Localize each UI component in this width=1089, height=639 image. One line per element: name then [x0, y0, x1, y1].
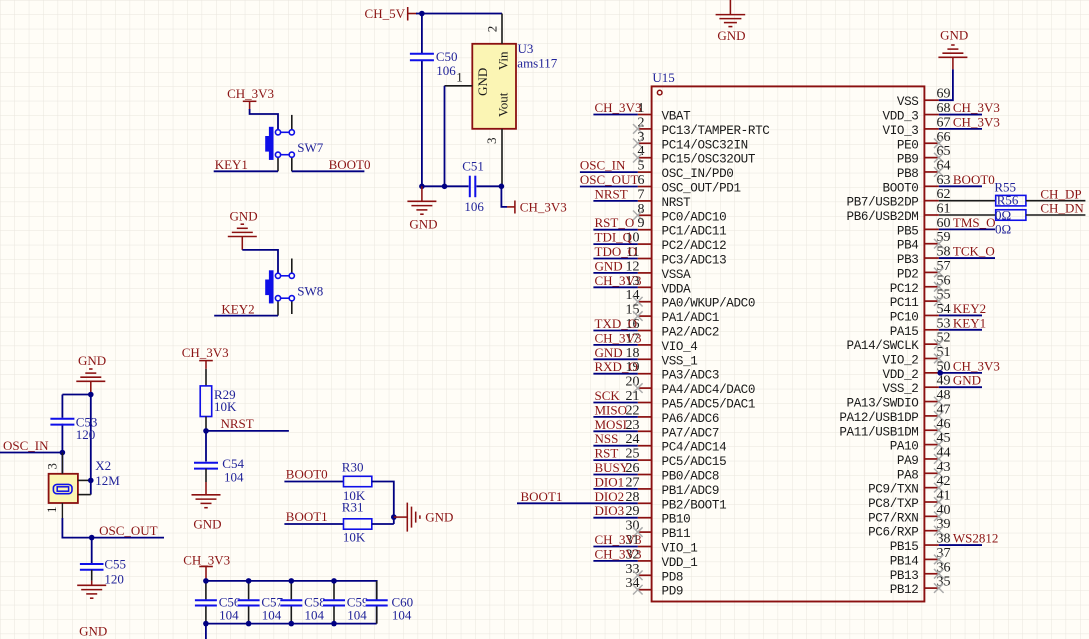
power port CH_3V3 (U3 output) — [507, 199, 567, 214]
U3 pin 2 (Vin) — [484, 14, 502, 44]
U15 pin 15 (PA1/ADC1) — [626, 303, 720, 326]
wire net KEY1 to U15 pin 53 — [939, 329, 982, 331]
wire net SCK to U15 pin 21 — [593, 402, 637, 404]
svg-text:ams117: ams117 — [517, 56, 557, 71]
no-connect marker pin 46 — [934, 425, 944, 435]
svg-text:BOOT0: BOOT0 — [329, 157, 371, 172]
wire net TMS_O to U15 pin 60 — [939, 228, 995, 230]
svg-text:PB4: PB4 — [897, 239, 919, 253]
wire net NSS to U15 pin 24 — [593, 445, 637, 447]
svg-text:NRST: NRST — [662, 196, 692, 210]
U15 pin 26 (PB0/ADC8) — [626, 461, 720, 484]
wire cap bank top rail — [206, 581, 377, 624]
crystal X2 body — [49, 474, 78, 503]
svg-text:PA3/ADC3: PA3/ADC3 — [662, 369, 720, 383]
U15 pin 54 (PC10) — [890, 302, 951, 325]
svg-text:PA9: PA9 — [897, 454, 919, 468]
svg-text:106: 106 — [436, 63, 456, 78]
U15 pin 32 (VDD_1) — [626, 547, 698, 570]
U15 pin 56 (PC12) — [890, 273, 951, 296]
svg-text:PB1/ADC9: PB1/ADC9 — [662, 484, 720, 498]
wire net CH_3V3 to U15 pin 31 — [593, 546, 637, 548]
no-connect marker pin 56 — [934, 282, 944, 292]
U3 pin 1 (GND) — [445, 69, 473, 86]
wire R56 to CH_DN — [1026, 214, 1086, 216]
switch SW8 — [265, 259, 294, 316]
wire net CH_3V3 to U15 pin 13 — [593, 286, 637, 288]
junction bank top 0 — [203, 578, 209, 584]
no-connect marker pin 64 — [934, 167, 944, 177]
svg-text:X2: X2 — [95, 458, 111, 473]
U15 pin 48 (PA13/SWDIO) — [847, 388, 951, 411]
svg-text:PC13/TAMPER-RTC: PC13/TAMPER-RTC — [662, 124, 771, 138]
wire CH_5V down through C50 — [421, 14, 423, 187]
svg-text:GND: GND — [79, 623, 107, 638]
U15 pin 50 (VDD_2) — [883, 359, 951, 382]
junction U3 gnd rail mid — [442, 184, 448, 190]
svg-text:104: 104 — [392, 608, 412, 623]
wire U3 pin1 to gnd rail — [444, 86, 446, 187]
C55 lower pin — [91, 570, 93, 581]
svg-text:PA10: PA10 — [890, 440, 919, 454]
wire U15 pin 61 to R56 — [939, 214, 996, 216]
svg-text:PC10: PC10 — [890, 310, 919, 324]
power port CH_3V3 (cap bank) — [183, 553, 230, 581]
no-connect marker pin 43 — [934, 469, 944, 479]
svg-text:RXD_O: RXD_O — [595, 359, 638, 374]
svg-text:PA13/SWDIO: PA13/SWDIO — [847, 397, 919, 411]
svg-text:PC1/ADC11: PC1/ADC11 — [662, 225, 727, 239]
svg-text:PA5/ADC5/DAC1: PA5/ADC5/DAC1 — [662, 398, 756, 412]
junction crystal case — [88, 478, 94, 484]
wire net WS2812 to U15 pin 38 — [939, 544, 982, 546]
U15 pin 33 (PD8) — [626, 562, 684, 585]
svg-text:GND: GND — [717, 28, 745, 43]
svg-text:PB2/BOOT1: PB2/BOOT1 — [662, 498, 727, 512]
capacitor C57 — [237, 581, 259, 624]
junction OSC_OUT — [89, 535, 95, 541]
wire OSC_IN — [0, 452, 62, 454]
no-connect marker pin 47 — [934, 411, 944, 421]
X2 case pins — [78, 480, 91, 494]
U15 pin 27 (PB1/ADC9) — [626, 475, 720, 498]
resistor R29 body — [200, 386, 212, 417]
svg-text:WS2812: WS2812 — [953, 531, 999, 546]
svg-text:C50: C50 — [436, 49, 458, 64]
svg-text:CH_3V3: CH_3V3 — [595, 546, 642, 561]
svg-text:CH_3V3: CH_3V3 — [183, 553, 230, 568]
svg-text:PA1/ADC1: PA1/ADC1 — [662, 311, 720, 325]
junction bank bottom 1 — [246, 621, 252, 627]
svg-text:OSC_OUT: OSC_OUT — [99, 523, 158, 538]
wire net MISO to U15 pin 22 — [593, 416, 637, 418]
svg-text:GND: GND — [230, 208, 258, 223]
svg-text:C55: C55 — [104, 557, 126, 572]
svg-text:VDD_3: VDD_3 — [883, 110, 919, 124]
svg-text:0Ω: 0Ω — [995, 222, 1011, 237]
wire net RST to U15 pin 25 — [593, 459, 637, 461]
junction bank bottom 0 — [203, 621, 209, 627]
no-connect marker pin 40 — [934, 512, 944, 522]
U15 pin 53 (PA15) — [890, 316, 951, 339]
wire net CH_3V3 to U15 pin 17 — [593, 344, 637, 346]
U15 pin 22 (PA6/ADC6) — [626, 403, 720, 426]
svg-text:CH_3V3: CH_3V3 — [953, 114, 1000, 129]
wire net RXD_O to U15 pin 19 — [593, 373, 637, 375]
ground C55 — [77, 585, 107, 638]
U15 pin 46 (PA11/USB1DM) — [839, 417, 950, 440]
no-connect marker pin 4 — [633, 153, 643, 163]
no-connect marker pin 37 — [934, 555, 944, 565]
svg-text:VIO_1: VIO_1 — [662, 542, 698, 556]
svg-text:PC4/ADC14: PC4/ADC14 — [662, 441, 727, 455]
svg-text:CH_3V3: CH_3V3 — [595, 100, 642, 115]
svg-text:DIO3: DIO3 — [595, 503, 625, 518]
svg-text:104: 104 — [219, 608, 239, 623]
wire net CH_3V3 to U15 pin 67 — [939, 128, 982, 130]
U15 pin 31 (VIO_1) — [626, 533, 698, 556]
U15 pin 35 (PB12) — [890, 575, 951, 598]
svg-text:VSS: VSS — [897, 95, 919, 109]
svg-text:104: 104 — [347, 608, 367, 623]
capacitor C53 — [50, 419, 74, 425]
ground (R30/R31, rotated) — [394, 503, 454, 532]
no-connect marker pin 2 — [633, 124, 643, 134]
wire CH_5V to U3 pin 2 — [416, 13, 502, 15]
svg-text:PB12: PB12 — [890, 583, 919, 597]
wire BOOT0 (SW7) — [292, 170, 365, 172]
U15 pin 36 (PB13) — [890, 560, 951, 583]
svg-text:CH_5V: CH_5V — [365, 6, 406, 21]
U15 pin 43 (PA8) — [897, 460, 951, 483]
no-connect marker pin 57 — [934, 268, 944, 278]
U15 pin 20 (PA4/ADC4/DAC0) — [626, 375, 756, 398]
svg-text:TMS_O: TMS_O — [953, 215, 996, 230]
no-connect marker pin 55 — [934, 296, 944, 306]
regulator U3 body — [472, 44, 516, 129]
svg-text:BOOT0: BOOT0 — [953, 172, 995, 187]
svg-text:VBAT: VBAT — [662, 110, 692, 124]
wire CH_3V3 to SW7 — [250, 109, 278, 130]
svg-text:CH_3V3: CH_3V3 — [953, 358, 1000, 373]
svg-text:7: 7 — [638, 187, 645, 202]
svg-text:9: 9 — [638, 216, 645, 231]
svg-text:GND: GND — [595, 345, 623, 360]
wire net NRST to U15 pin 7 — [593, 200, 637, 202]
svg-text:CH_DP: CH_DP — [1040, 186, 1081, 201]
U15 pin 37 (PB14) — [890, 546, 951, 569]
U15 pin 9 (PC1/ADC11) — [638, 216, 727, 239]
U15 pin 63 (BOOT0) — [883, 173, 951, 196]
resistor R56 body — [996, 210, 1026, 221]
no-connect marker pin 8 — [633, 211, 643, 221]
svg-text:DIO1: DIO1 — [595, 474, 625, 489]
wire U15 pin 62 to R55 — [939, 200, 996, 202]
svg-text:BUSY: BUSY — [595, 460, 630, 475]
junction bank bottom 3 — [331, 621, 337, 627]
U15 pin 6 (OSC_OUT/PD1) — [638, 173, 741, 196]
capacitor C59 — [323, 581, 345, 624]
resistor R30 body — [344, 476, 372, 486]
switch SW7 — [265, 115, 294, 171]
svg-text:VIO_2: VIO_2 — [883, 354, 919, 368]
svg-text:PA4/ADC4/DAC0: PA4/ADC4/DAC0 — [662, 383, 756, 397]
U15 pin 68 (VDD_3) — [883, 101, 951, 124]
svg-text:PC3/ADC13: PC3/ADC13 — [662, 254, 727, 268]
junction bank top 1 — [246, 578, 252, 584]
svg-text:PC15/OSC32OUT: PC15/OSC32OUT — [662, 153, 756, 167]
svg-text:PD9: PD9 — [662, 585, 684, 599]
svg-text:BOOT0: BOOT0 — [883, 181, 919, 195]
svg-text:1: 1 — [456, 69, 463, 84]
R29 bottom pin — [205, 417, 207, 431]
ground (SW8) — [228, 208, 258, 250]
R29 top pin — [205, 369, 207, 386]
wire gnd to C53 branch — [62, 394, 90, 396]
no-connect marker pin 39 — [934, 526, 944, 536]
U3 pin 3 (Vout) — [484, 129, 502, 187]
svg-text:MOSI: MOSI — [595, 417, 628, 432]
wire net RST_O to U15 pin 9 — [593, 229, 637, 231]
svg-text:PB11: PB11 — [662, 527, 691, 541]
svg-text:CH_3V3: CH_3V3 — [595, 532, 642, 547]
svg-text:GND: GND — [475, 68, 490, 96]
no-connect marker pin 30 — [633, 527, 643, 537]
svg-text:CH_3V3: CH_3V3 — [595, 330, 642, 345]
junction U3 gnd rail left — [419, 184, 425, 190]
wire OSC_OUT down to C55 — [91, 538, 93, 563]
wire NRST to C54 — [205, 431, 207, 462]
wire net GND to U15 pin 18 — [593, 358, 637, 360]
svg-text:TXD_O: TXD_O — [595, 316, 638, 331]
svg-text:PB10: PB10 — [662, 513, 691, 527]
no-connect marker pin 3 — [633, 139, 643, 149]
no-connect marker pin 14 — [633, 297, 643, 307]
wire GND to SW8 — [242, 250, 278, 273]
capacitor C58 — [280, 581, 302, 624]
svg-text:KEY2: KEY2 — [953, 301, 986, 316]
svg-text:PB9: PB9 — [897, 153, 919, 167]
U15 pin 14 (PA0/WKUP/ADC0) — [626, 288, 756, 311]
svg-text:SCK: SCK — [595, 388, 621, 403]
svg-text:VDD_1: VDD_1 — [662, 556, 698, 570]
wire bottom rail down — [205, 624, 207, 639]
wire net GND to U15 pin 12 — [593, 272, 637, 274]
svg-text:PA7/ADC7: PA7/ADC7 — [662, 426, 720, 440]
ground above U15 (top middle) — [716, 0, 746, 43]
C54 lower pin — [205, 469, 207, 482]
wire NRST — [206, 430, 289, 432]
svg-text:PC14/OSC32IN: PC14/OSC32IN — [662, 138, 748, 152]
no-connect marker pin 44 — [934, 454, 944, 464]
U15 pin 11 (PC3/ADC13) — [626, 245, 726, 268]
U15 pin 21 (PA5/ADC5/DAC1) — [626, 389, 756, 412]
svg-text:6: 6 — [638, 173, 645, 188]
svg-text:1: 1 — [44, 506, 59, 513]
wire net TDO_O to U15 pin 11 — [593, 258, 637, 260]
wire net CH_3V3 to U15 pin 1 — [593, 114, 637, 116]
svg-text:PB15: PB15 — [890, 540, 919, 554]
no-connect marker pin 59 — [934, 239, 944, 249]
U15 pin 5 (OSC_IN/PD0) — [638, 159, 734, 182]
U15 pin 2 (PC13/TAMPER-RTC) — [638, 115, 771, 137]
svg-text:GND: GND — [409, 216, 437, 231]
svg-text:BOOT0: BOOT0 — [286, 466, 328, 481]
svg-text:PB6/USB2DM: PB6/USB2DM — [847, 210, 919, 224]
U15 pin 34 (PD9) — [626, 576, 684, 599]
wire R55 to CH_DP — [1026, 200, 1086, 202]
wire net OSC_OUT to U15 pin 6 — [580, 186, 638, 188]
svg-text:PB8: PB8 — [897, 167, 919, 181]
U15 pin 25 (PC5/ADC15) — [626, 447, 727, 470]
svg-text:PA0/WKUP/ADC0: PA0/WKUP/ADC0 — [662, 297, 756, 311]
power port CH_3V3 (SW7) — [227, 86, 274, 110]
svg-text:120: 120 — [104, 572, 124, 587]
wire KEY1 — [214, 170, 278, 172]
no-connect marker pin 42 — [934, 483, 944, 493]
U15 pin 23 (PA7/ADC7) — [626, 418, 720, 441]
no-connect marker pin 41 — [934, 497, 944, 507]
wire net TXD_O to U15 pin 16 — [593, 330, 637, 332]
svg-text:PB3: PB3 — [897, 253, 919, 267]
U15 pin 58 (PB3) — [897, 245, 951, 267]
U15 pin 49 (VSS_2) — [883, 374, 951, 397]
wire net TDI_Q to U15 pin 10 — [593, 243, 637, 245]
svg-text:SW8: SW8 — [297, 284, 323, 299]
U15 pin 40 (PC7/RXN) — [868, 503, 950, 526]
U15 pin 69 (VSS) — [897, 87, 951, 110]
svg-text:C51: C51 — [462, 159, 484, 174]
ground C54 — [192, 495, 222, 532]
U15 pin 42 (PC9/TXN) — [868, 474, 950, 497]
svg-text:104: 104 — [224, 470, 244, 485]
wire net GND to U15 pin 49 — [939, 386, 982, 388]
ground stem U3 — [421, 186, 423, 201]
ground stem C54 — [205, 482, 207, 495]
wire C53 branch down — [61, 395, 63, 453]
U15 pin 59 (PB4) — [897, 230, 951, 253]
U15 pin 28 (PB2/BOOT1) — [626, 490, 727, 513]
wire C51 to CH_3V3 corner — [477, 185, 502, 187]
capacitor C54 — [194, 463, 218, 469]
U15 pin 55 (PC11) — [890, 288, 951, 311]
svg-text:PC7/RXN: PC7/RXN — [868, 511, 918, 525]
svg-text:PC0/ADC10: PC0/ADC10 — [662, 210, 727, 224]
U15 pin 18 (VSS_1) — [626, 346, 698, 369]
U15 pin 30 (PB11) — [626, 519, 691, 542]
svg-text:OSC_IN: OSC_IN — [3, 438, 49, 453]
U15 pin 3 (PC14/OSC32IN) — [638, 130, 748, 153]
junction CH_5V — [419, 11, 425, 17]
svg-text:PB0/ADC8: PB0/ADC8 — [662, 470, 720, 484]
U15 pin 38 (PB15) — [890, 532, 951, 555]
junction OSC_IN — [60, 450, 66, 456]
wire net KEY2 to U15 pin 54 — [939, 314, 982, 316]
U15 pin 60 (PB5) — [897, 216, 951, 239]
junction pin 50 — [937, 370, 943, 376]
svg-text:MISO: MISO — [595, 402, 628, 417]
wire OSC_OUT — [92, 537, 164, 539]
svg-text:10K: 10K — [214, 399, 237, 414]
wire KEY2 — [214, 315, 278, 317]
svg-text:3: 3 — [484, 138, 499, 145]
wire VSS pin 69 to GND — [939, 69, 953, 100]
svg-text:PC6/RXP: PC6/RXP — [868, 526, 918, 540]
svg-text:120: 120 — [76, 427, 96, 442]
no-connect marker pin 52 — [934, 339, 944, 349]
wire net CH_3V3 to U15 pin 32 — [593, 560, 637, 562]
junction bank top 3 — [331, 578, 337, 584]
U15 pin 39 (PC6/RXP) — [868, 517, 950, 540]
U15 pin 65 (PB9) — [897, 144, 951, 167]
svg-text:NRST: NRST — [595, 186, 628, 201]
U15 pin 64 (PB8) — [897, 158, 951, 181]
resistor R55 body — [996, 195, 1026, 206]
svg-text:NSS: NSS — [595, 431, 619, 446]
no-connect marker pin 20 — [633, 383, 643, 393]
capacitor C60 — [366, 581, 388, 624]
U15 pin 8 (PC0/ADC10) — [638, 202, 727, 225]
svg-text:R30: R30 — [342, 459, 364, 474]
svg-text:TDO_O: TDO_O — [595, 244, 638, 259]
svg-text:PA2/ADC2: PA2/ADC2 — [662, 326, 720, 340]
no-connect marker pin 34 — [633, 585, 643, 595]
ground at VSS pin 69 (top right) — [938, 28, 968, 70]
svg-text:5: 5 — [638, 159, 645, 174]
wire net BOOT0 to U15 pin 63 — [939, 185, 982, 187]
wire BOOT1 (R31) — [284, 523, 343, 525]
svg-text:PD8: PD8 — [662, 570, 684, 584]
svg-text:12M: 12M — [95, 473, 120, 488]
wire net MOSI to U15 pin 23 — [593, 430, 637, 432]
svg-text:BOOT1: BOOT1 — [521, 489, 563, 504]
wire OSC_IN to crystal pin 3 — [61, 453, 63, 474]
no-connect marker pin 35 — [934, 583, 944, 593]
wire net TCK_O to U15 pin 58 — [939, 257, 995, 259]
IC U15 body — [652, 86, 925, 601]
X2 pin 3 — [45, 453, 63, 474]
power port CH_5V — [365, 6, 417, 21]
svg-text:PA8: PA8 — [897, 468, 919, 482]
wire net DIO2 to U15 pin 28 — [517, 502, 638, 504]
U15 pin 45 (PA10) — [890, 431, 951, 454]
power port CH_3V3 (R29) — [182, 345, 229, 369]
wire crystal case branch — [90, 395, 92, 495]
svg-text:PC5/ADC15: PC5/ADC15 — [662, 455, 727, 469]
no-connect marker pin 51 — [934, 354, 944, 364]
svg-text:PA11/USB1DM: PA11/USB1DM — [839, 425, 918, 439]
svg-text:VSS_2: VSS_2 — [883, 382, 919, 396]
wire R31 to gnd column — [372, 523, 394, 525]
U15 pin 61 (PB6/USB2DM) — [847, 202, 951, 225]
U15 pin 51 (VIO_2) — [883, 345, 951, 368]
svg-text:10K: 10K — [343, 529, 366, 544]
svg-text:VDD_2: VDD_2 — [883, 368, 919, 382]
svg-text:GND: GND — [595, 258, 623, 273]
svg-text:Vout: Vout — [495, 92, 510, 117]
svg-text:0Ω: 0Ω — [995, 208, 1011, 223]
svg-text:Vin: Vin — [495, 51, 510, 70]
U15 pin 44 (PA9) — [897, 445, 951, 468]
svg-text:PE0: PE0 — [897, 138, 919, 152]
U15 pin 29 (PB10) — [626, 504, 691, 527]
svg-text:PC2/ADC12: PC2/ADC12 — [662, 239, 727, 253]
wire R30 to gnd column — [372, 482, 394, 525]
U15 pin 47 (PA12/USB1DP) — [839, 402, 950, 425]
capacitor C50 — [410, 54, 434, 60]
svg-text:TDI_Q: TDI_Q — [595, 230, 633, 245]
no-connect marker pin 33 — [633, 571, 643, 581]
